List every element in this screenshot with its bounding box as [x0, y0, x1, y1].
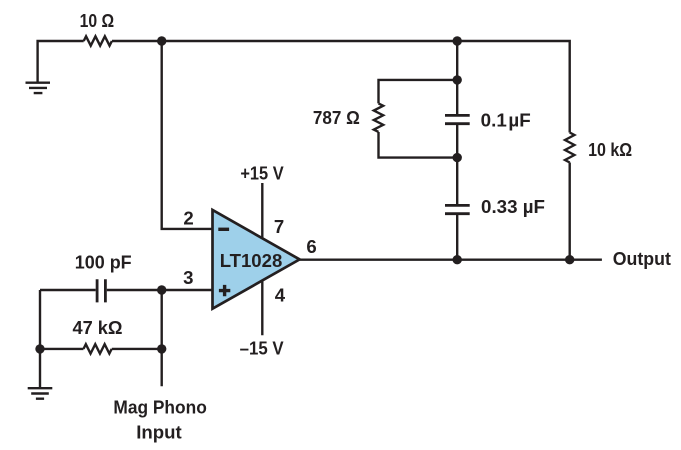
node: pin3 / 100pF junction — [157, 285, 166, 294]
svg-text:787 Ω: 787 Ω — [313, 107, 360, 128]
svg-text:+15 V: +15 V — [240, 163, 284, 184]
node: 787 branch bottom junction — [453, 153, 462, 162]
svg-text:10 Ω: 10 Ω — [80, 10, 115, 31]
wire: op-amp power vertical (+15V to -15V) — [261, 183, 263, 335]
capacitor C=100pF plates — [97, 279, 105, 302]
wire: left vertical from 100pF row down to ground — [39, 290, 41, 388]
wire: 787 ohm branch top horizontal — [379, 80, 458, 104]
op-amp minus sign — [218, 228, 229, 231]
svg-text:2: 2 — [183, 208, 193, 229]
capacitor C=0.33uF plates — [445, 205, 470, 213]
resistor R=10 kohm zigzag (vertical) — [565, 133, 574, 163]
svg-text:4: 4 — [275, 285, 286, 306]
svg-text:LT1028: LT1028 — [220, 250, 283, 271]
resistor R=47 kohm zigzag — [84, 344, 112, 353]
wire: 100pF row right segment — [107, 289, 162, 291]
resistor R=787 ohm zigzag (vertical) — [374, 103, 383, 132]
wire: inverting input pin2 from top node — [162, 41, 213, 229]
wire: top rail left segment with corner down to ground — [38, 41, 84, 83]
wire: center vertical from 0.33uF to output row — [456, 215, 458, 260]
ground (bottom-left) — [28, 388, 53, 399]
resistor R=10 ohm zigzag — [84, 36, 112, 45]
svg-text:6: 6 — [306, 236, 316, 257]
wire: 47k row left stub — [40, 348, 84, 350]
node: top rail / center vertical junction — [453, 36, 462, 45]
wire: right vertical below 10k to output row — [569, 163, 571, 260]
op-amp plus sign — [219, 285, 230, 296]
svg-text:Output: Output — [613, 248, 671, 269]
svg-text:47 kΩ: 47 kΩ — [72, 317, 122, 338]
node: output / 10k junction — [565, 255, 574, 264]
node: 47k left junction — [35, 344, 44, 353]
wire: 100pF row left segment — [40, 289, 96, 291]
wire: non-inverting input pin3 — [162, 289, 213, 291]
wire: center vertical from 0.1uF to 0.33uF — [456, 125, 458, 204]
op-amp U1 LT1028 triangle — [213, 210, 300, 309]
node: top rail / pin2 junction — [157, 36, 166, 45]
wire: 47k row right stub — [112, 348, 162, 350]
node: 787 branch top junction — [453, 75, 462, 84]
wire: center vertical from top rail to 0.1uF top plate — [456, 41, 458, 114]
svg-text:7: 7 — [274, 216, 284, 237]
wire: top rail from 10 ohm to right corner — [112, 41, 570, 133]
svg-text:0.33 µF: 0.33 µF — [481, 196, 545, 217]
node: output / center vertical junction — [453, 255, 462, 264]
svg-text:10 kΩ: 10 kΩ — [588, 139, 632, 160]
node: 47k right junction — [157, 344, 166, 353]
svg-text:Mag Phono: Mag Phono — [113, 396, 206, 417]
svg-text:Input: Input — [136, 421, 182, 442]
svg-text:3: 3 — [183, 267, 193, 288]
ground (top-left) — [26, 83, 51, 93]
wire: 787 ohm branch bottom horizontal — [379, 132, 458, 158]
capacitor C=0.1uF plates — [445, 115, 470, 123]
svg-text:–15 V: –15 V — [240, 338, 285, 359]
wire: output from op-amp apex to Output label — [300, 259, 602, 261]
svg-text:0.1 µF: 0.1 µF — [481, 109, 531, 130]
wire: input vertical (Mag Phono Input) — [160, 290, 162, 386]
svg-text:100 pF: 100 pF — [75, 252, 132, 273]
